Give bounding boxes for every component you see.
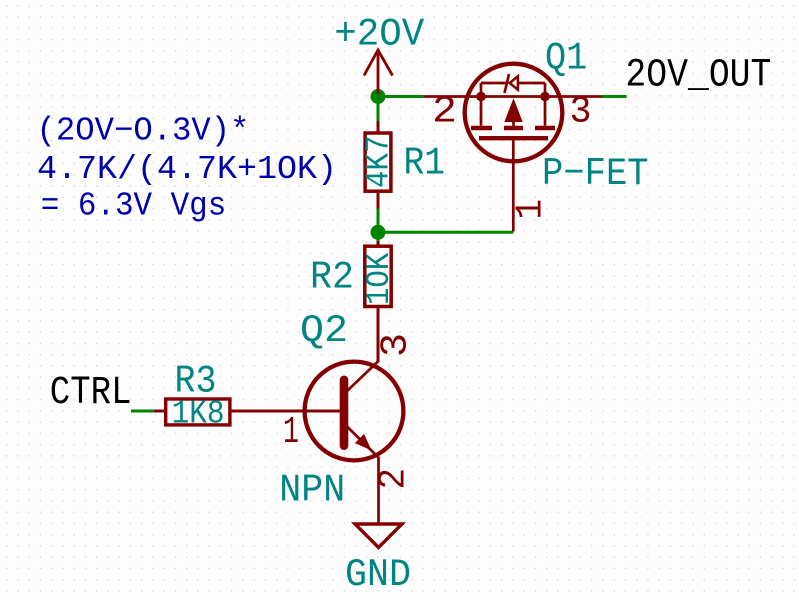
- wire junction 2 to Q1 gate: [378, 231, 513, 234]
- node junction dot mid: [371, 225, 386, 240]
- svg-text:3: 3: [570, 91, 592, 134]
- svg-text:1K8: 1K8: [172, 396, 225, 433]
- svg-text:R2: R2: [310, 256, 354, 300]
- body diode cathode bar: [505, 74, 510, 93]
- svg-text:+2OV: +2OV: [334, 12, 425, 56]
- node junction dot top: [371, 89, 386, 104]
- channel bar right: [535, 126, 555, 130]
- power +20V symbol: [364, 50, 393, 94]
- wire Q1 drain to 20V_OUT: [602, 95, 627, 98]
- svg-text:4K7: 4K7: [360, 136, 397, 189]
- junction dot internal right: [540, 92, 550, 102]
- svg-text:3: 3: [375, 333, 418, 357]
- svg-text:(2OV−O.3V)*: (2OV−O.3V)*: [37, 113, 250, 150]
- svg-text:P−FET: P−FET: [542, 152, 649, 196]
- svg-text:2OV_OUT: 2OV_OUT: [625, 54, 771, 99]
- svg-text:NPN: NPN: [279, 468, 345, 512]
- svg-text:CTRL: CTRL: [50, 371, 132, 416]
- circle body: [465, 64, 563, 162]
- transistor Q1 P-FET: [424, 64, 602, 232]
- svg-text:Q2: Q2: [300, 309, 348, 353]
- ground symbol: [355, 524, 402, 548]
- comment blue text: [37, 113, 338, 225]
- svg-text:GND: GND: [345, 553, 411, 597]
- channel connect right: [544, 97, 547, 126]
- wire +20V junction to Q1 source: [378, 95, 424, 98]
- emitter lead: [377, 457, 380, 524]
- substrate stub: [512, 120, 515, 126]
- svg-text:1: 1: [510, 199, 553, 220]
- vertical stub right: [544, 83, 547, 97]
- emitter diagonal: [347, 427, 379, 458]
- svg-text:R1: R1: [404, 141, 446, 185]
- wire CTRL to R3: [131, 410, 154, 413]
- circle body: [305, 362, 404, 461]
- base lead: [230, 410, 344, 413]
- junction dot internal left: [476, 92, 486, 102]
- resistor R3: [154, 399, 344, 425]
- svg-text:4.7K/(4.7K+1OK): 4.7K/(4.7K+1OK): [37, 151, 337, 188]
- substrate arrow filled: [504, 98, 522, 122]
- resistor R1: [365, 121, 391, 209]
- base bar: [340, 376, 349, 451]
- wire junction down to R1: [377, 97, 380, 122]
- svg-text:2: 2: [432, 91, 457, 134]
- channel bar middle: [504, 126, 523, 130]
- svg-text:= 6.3V Vgs: = 6.3V Vgs: [41, 188, 227, 225]
- channel bar left: [471, 126, 492, 130]
- emitter arrow: [355, 434, 372, 451]
- body diode line right: [519, 82, 546, 85]
- gate lead pin 1: [512, 140, 515, 232]
- transistor Q2 NPN: [230, 307, 403, 524]
- body diode line left: [481, 82, 506, 85]
- svg-text:2: 2: [373, 468, 416, 490]
- resistor R2: [365, 241, 391, 361]
- channel connect left: [480, 97, 483, 126]
- svg-text:1OK: 1OK: [361, 253, 398, 305]
- gate bar: [479, 136, 548, 140]
- svg-text:Q1: Q1: [545, 36, 587, 80]
- collector lead: [377, 307, 380, 361]
- source-drain horizontal line with leads: [424, 95, 602, 98]
- svg-text:1: 1: [283, 411, 299, 454]
- vertical stub left: [480, 83, 483, 97]
- collector diagonal: [347, 361, 379, 392]
- wire R1 bottom to junction 2 to R2: [377, 208, 380, 241]
- body diode triangle: [510, 76, 518, 89]
